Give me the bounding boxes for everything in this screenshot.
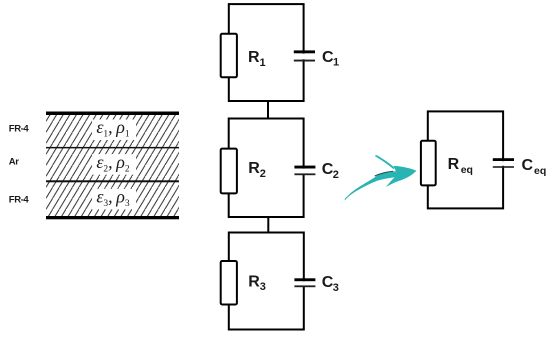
svg-text:Ar: Ar: [9, 156, 19, 167]
svg-text:R: R: [248, 49, 260, 66]
capacitor C3 bottom plate: [294, 285, 315, 287]
capacitor C2 gap: [301, 169, 307, 174]
svg-text:FR-4: FR-4: [9, 194, 30, 205]
svg-text:R: R: [248, 160, 260, 177]
arrow tail + head: [345, 166, 417, 201]
RC block 2 loop wire: [229, 119, 304, 218]
capacitor Ceq bottom plate: [493, 166, 514, 168]
RC block 3 loop wire: [229, 233, 304, 330]
layer divider 2: [46, 180, 179, 182]
dielectric stack hatched body: [46, 115, 179, 216]
capacitor C1 top plate: [294, 50, 315, 53]
capacitor C2 bottom plate: [294, 173, 315, 175]
layer divider 1: [46, 147, 179, 149]
svg-text:2: 2: [260, 168, 266, 180]
stack bottom electrode bar: [46, 216, 179, 219]
capacitor C1 gap: [301, 54, 307, 60]
capacitor C2 top plate: [294, 166, 315, 169]
svg-text:C: C: [522, 157, 534, 174]
svg-text:3: 3: [260, 281, 266, 293]
equivalent RC block loop wire: [428, 111, 503, 208]
svg-text:1: 1: [260, 57, 266, 69]
svg-text:1: 1: [333, 57, 339, 69]
svg-text:2: 2: [333, 169, 339, 181]
svg-text:eq: eq: [534, 165, 546, 177]
svg-text:FR-4: FR-4: [9, 124, 30, 135]
capacitor C1 bottom plate: [294, 60, 315, 62]
label eps2,rho2: [92, 152, 136, 175]
svg-text:eq: eq: [461, 164, 473, 176]
capacitor C3 top plate: [294, 278, 315, 281]
resistor R3: [221, 261, 237, 305]
arrow upper spur: [375, 155, 395, 169]
stack top electrode bar: [46, 112, 179, 116]
resistor R2: [221, 149, 237, 194]
arrow dark edge shading: [375, 171, 394, 177]
label eps1,rho1: [92, 117, 136, 140]
capacitor C3 gap: [301, 281, 307, 286]
svg-text:R: R: [248, 273, 260, 290]
svg-text:ε1, ρ1: ε1, ρ1: [96, 117, 130, 139]
label eps3,rho3: [92, 187, 136, 210]
RC block 1 loop wire: [229, 4, 304, 101]
svg-text:ε2, ρ2: ε2, ρ2: [96, 152, 130, 174]
svg-text:ε3, ρ3: ε3, ρ3: [96, 187, 130, 209]
wire junction 2-3: [267, 217, 269, 233]
resistor R1: [221, 34, 237, 78]
wire junction 1-2: [267, 101, 269, 119]
svg-text:R: R: [448, 156, 460, 173]
equivalence arrow (teal): [345, 155, 417, 200]
capacitor Ceq gap: [500, 161, 506, 166]
svg-text:3: 3: [333, 282, 339, 294]
capacitor Ceq top plate: [493, 158, 514, 161]
resistor Req: [421, 141, 436, 186]
